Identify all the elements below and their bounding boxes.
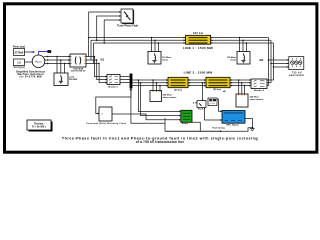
- svg-text:equivalent: equivalent: [289, 74, 304, 77]
- svg-text:1.0: 1.0: [17, 61, 21, 65]
- svg-text:Pmec (pu): Pmec (pu): [13, 46, 25, 49]
- svg-text:Discrete,: Discrete,: [34, 122, 44, 125]
- svg-text:MPC Signal: MPC Signal: [226, 125, 238, 127]
- svg-text:Ts = 5e-005 s: Ts = 5e-005 s: [32, 126, 47, 128]
- svg-text:447: 447: [223, 90, 226, 93]
- svg-text:Fault timing: Fault timing: [212, 127, 225, 130]
- svg-text:LINE 1 : 1500 MW: LINE 1 : 1500 MW: [183, 46, 213, 50]
- svg-text:Vref (pu): Vref (pu): [14, 66, 25, 69]
- svg-text:300 km: 300 km: [193, 32, 203, 35]
- svg-text:of a 735 kV transmission line: of a 735 kV transmission line: [136, 140, 184, 144]
- svg-text:Breaker 2: Breaker 2: [254, 90, 265, 92]
- svg-text:shunt: shunt: [162, 58, 168, 61]
- svg-text:shunt: shunt: [230, 58, 236, 61]
- svg-text:shunt reactor: shunt reactor: [163, 96, 177, 99]
- svg-text:Fault 2: Fault 2: [198, 107, 206, 110]
- svg-text:250 MW: 250 MW: [69, 79, 78, 81]
- svg-text:(50 km): (50 km): [174, 90, 182, 92]
- svg-text:Three-Phase Fault: Three-Phase Fault: [117, 24, 138, 27]
- svg-text:LINE 2 : 1500 MW: LINE 2 : 1500 MW: [184, 70, 213, 74]
- svg-text:for P=2776 MW: for P=2776 MW: [20, 76, 43, 79]
- svg-text:shunt reactor: shunt reactor: [250, 98, 264, 101]
- svg-text:13.8 kV/735 kV: 13.8 kV/735 kV: [70, 71, 86, 73]
- svg-text:Command (Pole) Breaking Clock: Command (Pole) Breaking Clock: [86, 123, 127, 125]
- svg-text:B1: B1: [101, 57, 105, 61]
- svg-text:Breaker 1: Breaker 1: [109, 86, 120, 88]
- svg-text:B2: B2: [260, 58, 264, 62]
- svg-text:(50 km): (50 km): [213, 89, 221, 91]
- svg-text:2776e6: 2776e6: [15, 51, 24, 55]
- svg-text:Pm m: Pm m: [36, 61, 42, 63]
- svg-text:Scope: Scope: [182, 123, 189, 125]
